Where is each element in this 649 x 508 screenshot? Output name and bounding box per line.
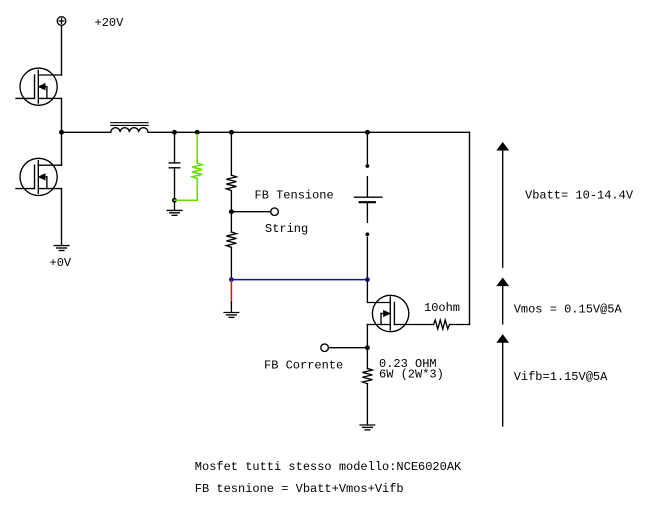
node battery terminal dot upper	[366, 164, 370, 168]
node string divider top junction dot	[229, 130, 234, 135]
wire battery branch top	[366, 132, 368, 163]
resistor green R1 (highlighted) with wires	[175, 134, 203, 200]
resistor R4 10ohm	[434, 320, 450, 329]
svg-text:6W (2W*3): 6W (2W*3)	[379, 368, 444, 382]
svg-text:Vifb=1.15V@5A: Vifb=1.15V@5A	[514, 370, 608, 384]
wire blue net	[231, 279, 367, 281]
wire node to capacitor C1	[174, 132, 176, 163]
svg-text:+20V: +20V	[95, 16, 125, 30]
svg-text:10ohm: 10ohm	[424, 301, 460, 315]
svg-text:FB Corrente: FB Corrente	[264, 358, 343, 372]
node green resistor top junction dot	[195, 130, 200, 135]
resistor R2 upper divider	[226, 175, 236, 190]
ground symbol at Q2 source	[54, 246, 69, 251]
svg-text:FB Tensione: FB Tensione	[255, 188, 334, 202]
wire FB node to resistor R5	[366, 348, 368, 369]
node FB Tensione junction dot	[229, 209, 234, 214]
power terminal +20V (circle with plus)	[57, 17, 66, 26]
wire inductor to top-right corner	[148, 131, 470, 133]
transistor Q2 low-side MOSFET	[20, 158, 62, 195]
node blue junction dot left	[229, 277, 234, 282]
arrow Vifb annotation	[498, 335, 508, 426]
capacitor C1	[169, 163, 180, 168]
node capacitor bottom junction dot	[172, 198, 177, 203]
ground symbol below shunt	[360, 425, 375, 430]
resistor R3 lower divider	[226, 232, 236, 247]
wire capacitor C1 to ground node	[174, 168, 176, 210]
node battery top junction dot	[365, 130, 370, 135]
wire resistor R4 to right vertical	[450, 324, 470, 326]
node capacitor top junction dot	[172, 130, 177, 135]
wire Q2 gate stub	[16, 188, 35, 190]
ground symbol below capacitor C1	[167, 210, 182, 215]
battery B1	[354, 177, 382, 223]
inductor L1	[111, 123, 148, 133]
wire right vertical branch	[469, 132, 471, 324]
resistor R5 0.23 OHM shunt	[362, 368, 372, 383]
svg-text:FB tesnione = Vbatt+Vmos+Vifb: FB tesnione = Vbatt+Vmos+Vifb	[195, 482, 404, 496]
terminal FB Corrente (open circle)	[321, 344, 329, 352]
wire Q1 source to node A	[61, 98, 63, 132]
wire blue node to Q3 drain corner	[367, 280, 390, 303]
node battery terminal dot lower	[366, 232, 370, 236]
wire to ground below red	[230, 302, 232, 312]
node blue junction dot right	[365, 277, 370, 282]
node FB Corrente junction dot	[365, 345, 370, 350]
wire FB node to terminal	[231, 211, 270, 213]
wire Q1 gate stub	[16, 97, 35, 99]
wire battery bottom to blue node	[366, 237, 368, 277]
wire node to resistor R2	[230, 132, 232, 175]
ground symbol below red wire	[224, 313, 239, 318]
arrow Vbatt annotation	[498, 143, 508, 267]
svg-text:Vmos = 0.15V@5A: Vmos = 0.15V@5A	[514, 303, 623, 317]
transistor Q1 high-side MOSFET	[20, 68, 62, 105]
transistor Q3 sense MOSFET (mirrored)	[367, 295, 408, 331]
svg-text:Vbatt= 10-14.4V: Vbatt= 10-14.4V	[525, 188, 634, 202]
svg-text:Mosfet tutti stesso modello:NC: Mosfet tutti stesso modello:NCE6020AK	[195, 460, 462, 474]
node A junction dot	[59, 130, 64, 135]
wire terminal to FB Corrente node	[328, 347, 367, 349]
wire node A to Q2 drain	[61, 132, 63, 165]
wire R3 top from FB node	[230, 212, 232, 232]
wire Q3 source down to FB Corrente node	[366, 325, 368, 348]
wire Q3 gate to resistor R4	[394, 324, 433, 326]
wire R3 bottom to blue node	[230, 247, 232, 277]
wire resistor R5 to ground	[366, 384, 368, 425]
svg-text:+0V: +0V	[50, 256, 72, 270]
wire power to Q1 drain	[61, 25, 63, 75]
arrow Vmos annotation	[498, 279, 508, 324]
wire Q2 source to ground	[61, 189, 63, 246]
terminal FB Tensione (open circle)	[271, 208, 279, 216]
svg-text:String: String	[265, 222, 308, 236]
wire red segment	[230, 281, 232, 302]
wire resistor R2 to FB node	[230, 191, 232, 212]
wire node A to inductor	[62, 131, 111, 133]
